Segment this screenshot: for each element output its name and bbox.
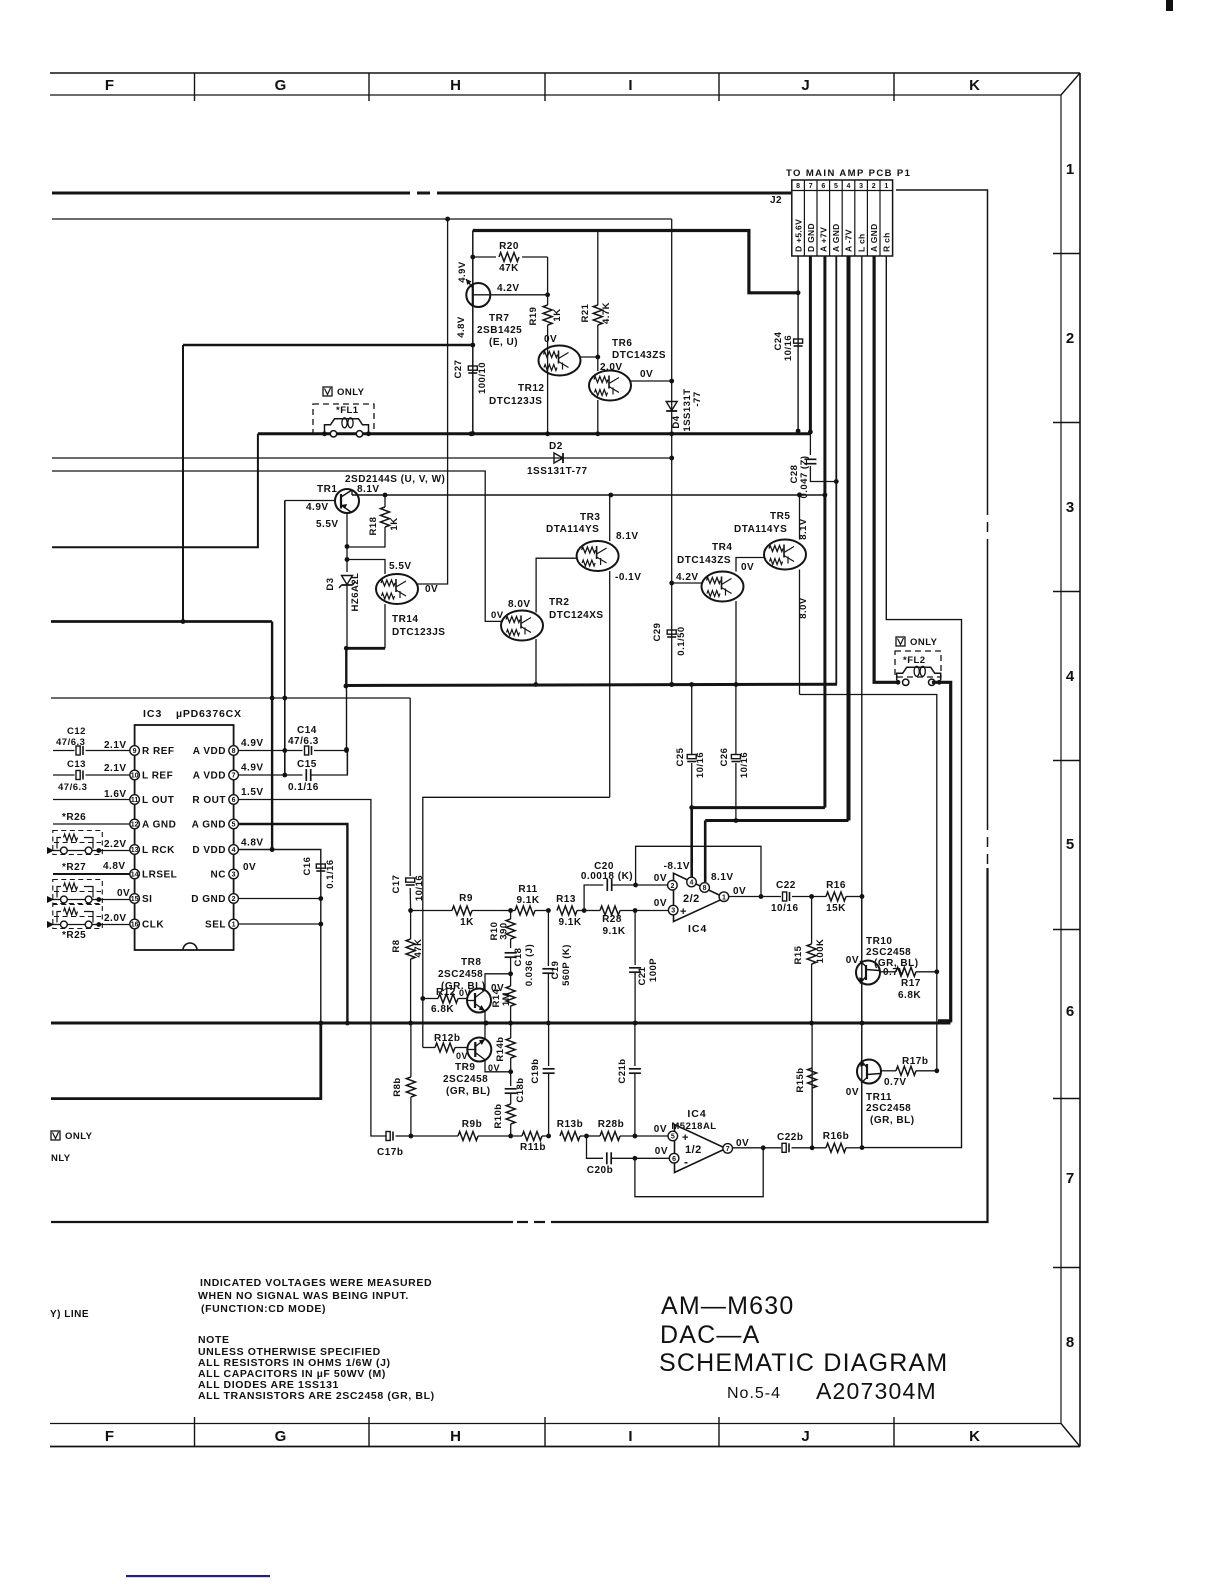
svg-text:A +7V: A +7V	[819, 227, 829, 252]
capacitor C20 branch	[584, 885, 603, 911]
svg-text:0V: 0V	[640, 369, 653, 380]
svg-text:C27: C27	[453, 360, 464, 379]
svg-text:TR11: TR11	[866, 1092, 892, 1103]
svg-text:IC3: IC3	[143, 708, 162, 720]
svg-text:100P: 100P	[648, 958, 659, 982]
svg-text:3: 3	[232, 872, 236, 879]
svg-text:2SC2458: 2SC2458	[438, 969, 483, 980]
svg-text:C17b: C17b	[377, 1147, 403, 1158]
svg-text:C22: C22	[776, 880, 796, 891]
svg-text:-8.1V: -8.1V	[664, 861, 690, 872]
svg-text:7: 7	[1066, 1170, 1074, 1187]
svg-text:6.8K: 6.8K	[431, 1004, 454, 1015]
wire A+7V rail to IC4 pin4	[692, 806, 825, 809]
svg-text:-77: -77	[692, 391, 703, 406]
wire ground bus	[51, 1022, 951, 1025]
svg-text:A GND: A GND	[192, 820, 226, 831]
svg-text:4.2V: 4.2V	[497, 283, 520, 294]
svg-text:C12: C12	[67, 726, 86, 737]
svg-text:J: J	[801, 77, 810, 94]
svg-text:R8b: R8b	[392, 1077, 403, 1096]
diode D3 zener	[342, 576, 353, 585]
wire J2 pin1 R ch	[862, 256, 962, 1148]
svg-text:C19: C19	[550, 961, 561, 980]
wire drive column x183	[182, 345, 184, 622]
transistor TR5	[764, 540, 806, 570]
svg-text:G: G	[275, 77, 288, 94]
svg-text:C16: C16	[302, 857, 313, 876]
svg-text:0V: 0V	[544, 334, 557, 345]
capacitor C18b	[510, 1072, 512, 1086]
svg-text:2SC2458: 2SC2458	[866, 947, 911, 958]
border frame top band	[50, 72, 1080, 74]
IC4a pin4	[687, 877, 697, 887]
svg-text:4.8V: 4.8V	[103, 861, 126, 872]
svg-text:*R27: *R27	[62, 862, 86, 873]
svg-text:INDICATED VOLTAGES WERE MEASUR: INDICATED VOLTAGES WERE MEASURED	[200, 1277, 432, 1289]
transistor TR11	[861, 1023, 863, 1060]
registration mark top right	[1166, 0, 1173, 11]
svg-text:Y) LINE: Y) LINE	[50, 1309, 89, 1320]
svg-text:0V: 0V	[733, 886, 746, 897]
svg-text:1.6V: 1.6V	[104, 789, 127, 800]
svg-text:R21: R21	[580, 303, 591, 322]
resistor R8b	[410, 1097, 412, 1136]
svg-text:No.5-4: No.5-4	[727, 1385, 781, 1402]
svg-text:H: H	[450, 77, 462, 94]
filter FL1	[313, 404, 374, 434]
wire x672 column	[671, 219, 673, 684]
svg-text:R28: R28	[602, 914, 622, 925]
wire C17 feed	[409, 698, 411, 876]
transistor TR8	[467, 989, 491, 1013]
capacitor C18	[505, 952, 517, 954]
svg-text:10/16: 10/16	[739, 752, 750, 778]
capacitor C12	[53, 750, 75, 752]
svg-text:D4: D4	[671, 415, 682, 428]
transistor TR9	[467, 1038, 491, 1062]
svg-text:C19b: C19b	[530, 1058, 541, 1083]
svg-text:8.1V: 8.1V	[711, 872, 734, 883]
svg-text:-: -	[684, 1155, 689, 1169]
resistor R12	[423, 998, 438, 1000]
IC4b pin6	[669, 1153, 679, 1163]
wire pin4 D VDD to C16	[51, 850, 321, 1099]
IC3 pin 12 A GND	[130, 819, 140, 829]
transistor TR7	[466, 283, 490, 307]
wire bus y433 filtered +5.6V	[258, 432, 811, 435]
wire J2 pin6 A+7V	[823, 256, 826, 808]
capacitor C19b	[548, 1023, 550, 1066]
svg-text:I: I	[628, 77, 633, 94]
svg-text:I: I	[628, 1428, 633, 1445]
svg-text:8.1V: 8.1V	[616, 531, 639, 542]
resistor R10	[510, 911, 512, 920]
svg-text:DTC123JS: DTC123JS	[392, 627, 445, 638]
resistor R9b	[458, 1132, 478, 1141]
svg-text:-0.1V: -0.1V	[615, 572, 641, 583]
svg-text:1: 1	[722, 894, 726, 901]
IC3 pin 7 A VDD	[229, 770, 239, 780]
svg-text:*FL2: *FL2	[903, 655, 926, 666]
svg-text:R13: R13	[556, 894, 576, 905]
svg-text:0.036 (J): 0.036 (J)	[524, 944, 535, 987]
svg-text:8.0V: 8.0V	[508, 599, 531, 610]
svg-text:R16: R16	[826, 880, 846, 891]
resistor R19	[547, 295, 549, 305]
IC3 pin 6 R OUT	[229, 795, 239, 805]
svg-text:9.1K: 9.1K	[602, 926, 625, 937]
IC3 pin 13 L RCK	[130, 845, 140, 855]
svg-text:TR3: TR3	[580, 512, 600, 523]
checkbox FL1 ONLY	[323, 387, 332, 396]
svg-text:4.9V: 4.9V	[457, 261, 468, 283]
svg-text:2SB1425: 2SB1425	[477, 325, 522, 336]
resistor R9	[452, 906, 472, 915]
wire vertical x284 from TR1 base	[284, 501, 286, 776]
resistor R18	[384, 495, 386, 507]
svg-text:0V: 0V	[491, 983, 504, 994]
svg-text:0V: 0V	[654, 898, 667, 909]
svg-text:2: 2	[670, 883, 674, 890]
svg-text:8: 8	[703, 885, 707, 892]
svg-text:F: F	[105, 77, 115, 94]
wire FL2 to ground corner	[932, 682, 951, 1021]
IC3 pin 11 L OUT	[130, 795, 140, 805]
wire TR1 emitter to D3	[346, 547, 348, 573]
svg-text:0V: 0V	[456, 1051, 468, 1061]
svg-text:DTC143ZS: DTC143ZS	[677, 555, 731, 566]
transistor TR4	[702, 572, 744, 602]
svg-text:15: 15	[131, 896, 139, 903]
IC3 pin 5 A GND	[229, 819, 239, 829]
IC3 pin 4 D VDD	[229, 845, 239, 855]
wire IC4b output	[733, 1147, 782, 1149]
svg-text:7: 7	[232, 773, 236, 780]
svg-text:6.8K: 6.8K	[898, 990, 921, 1001]
svg-text:0V: 0V	[654, 1124, 667, 1135]
wire pin7 A VDD to C15	[238, 774, 302, 776]
wire bus 8V	[346, 684, 837, 685]
wire thick TR14 emitter join	[346, 647, 385, 650]
wire pin5 A GND down	[238, 824, 347, 1023]
svg-text:1K: 1K	[460, 917, 474, 928]
svg-text:R10b: R10b	[493, 1103, 504, 1128]
svg-text:+: +	[682, 1132, 689, 1144]
svg-text:5: 5	[671, 1134, 675, 1141]
svg-text:1: 1	[884, 183, 888, 190]
svg-text:47/6.3: 47/6.3	[56, 737, 85, 748]
resistor R15	[811, 897, 813, 945]
wire node line y219	[52, 218, 672, 220]
wire TR14 collector to x447	[417, 219, 448, 584]
svg-text:2SC2458: 2SC2458	[443, 1074, 488, 1085]
svg-text:TR14: TR14	[392, 614, 418, 625]
svg-text:1M: 1M	[501, 992, 512, 1006]
svg-text:D GND: D GND	[191, 894, 226, 905]
svg-text:A GND: A GND	[869, 223, 879, 252]
svg-text:5.5V: 5.5V	[389, 561, 412, 572]
svg-text:3: 3	[1066, 499, 1074, 516]
svg-text:C18: C18	[513, 948, 524, 967]
resistor R16b	[826, 1143, 846, 1152]
resistor R12b	[423, 1047, 435, 1049]
resistor R20	[473, 256, 496, 258]
IC4b pin5	[668, 1131, 678, 1141]
svg-text:10/16: 10/16	[414, 875, 425, 901]
svg-text:6: 6	[232, 797, 236, 804]
svg-text:DTC143ZS: DTC143ZS	[612, 350, 666, 361]
wire FL1 branch corner	[52, 434, 258, 547]
transistor TR6	[589, 371, 631, 401]
svg-text:2/2: 2/2	[683, 893, 700, 905]
wire thick drive line y345	[183, 344, 473, 347]
wire TR14 base branch	[347, 560, 385, 575]
svg-text:TR5: TR5	[770, 511, 790, 522]
svg-text:1: 1	[1066, 161, 1074, 178]
svg-text:DTC124XS: DTC124XS	[549, 610, 604, 621]
svg-text:R19: R19	[528, 307, 539, 326]
svg-text:D VDD: D VDD	[192, 845, 226, 856]
wire IC4a feedback loop	[636, 846, 761, 896]
svg-text:R15: R15	[793, 945, 804, 964]
wire thick line y621 to D VDD	[51, 620, 272, 623]
svg-text:2: 2	[872, 183, 876, 190]
svg-text:C20b: C20b	[587, 1165, 613, 1176]
svg-text:NC: NC	[211, 870, 226, 881]
capacitor C21	[634, 911, 636, 966]
svg-text:0V: 0V	[654, 873, 667, 884]
capacitor C20b branch	[587, 1136, 604, 1158]
svg-text:0V: 0V	[117, 888, 130, 899]
svg-text:0V: 0V	[459, 988, 471, 998]
wire pin8 A VDD to C14	[238, 750, 302, 752]
svg-text:14: 14	[131, 872, 139, 879]
svg-text:10/16: 10/16	[783, 335, 794, 361]
svg-text:R14b: R14b	[495, 1036, 506, 1061]
svg-text:R18: R18	[368, 517, 379, 536]
capacitor C22	[783, 892, 787, 901]
svg-text:100/10: 100/10	[477, 362, 488, 394]
capacitor C26	[731, 755, 740, 759]
wire LRSEL pin14 line	[53, 873, 130, 875]
resistor R25 jumper	[53, 905, 103, 929]
svg-text:2: 2	[232, 896, 236, 903]
svg-text:R28b: R28b	[598, 1119, 624, 1130]
svg-text:ONLY: ONLY	[65, 1131, 93, 1142]
svg-text:(GR, BL): (GR, BL)	[870, 1115, 915, 1126]
svg-text:M5218AL: M5218AL	[671, 1121, 716, 1132]
wire IC4a output	[729, 896, 781, 898]
IC3 pin 3 NC	[229, 869, 239, 879]
svg-text:TR1: TR1	[317, 484, 337, 495]
svg-text:6: 6	[821, 183, 825, 190]
svg-text:4: 4	[847, 183, 851, 190]
svg-text:10/16: 10/16	[695, 752, 706, 778]
svg-text:9.1K: 9.1K	[516, 895, 539, 906]
svg-text:TO MAIN AMP PCB P1: TO MAIN AMP PCB P1	[786, 168, 911, 179]
svg-text:4.7K: 4.7K	[601, 302, 612, 324]
svg-text:8: 8	[1066, 1334, 1074, 1351]
svg-text:J2: J2	[770, 195, 782, 206]
svg-text:0V: 0V	[741, 562, 754, 573]
svg-text:3: 3	[859, 183, 863, 190]
svg-text:R OUT: R OUT	[192, 795, 226, 806]
capacitor C13	[53, 774, 75, 776]
resistor R14	[510, 974, 512, 986]
svg-text:16: 16	[131, 922, 139, 929]
svg-text:D +5.6V: D +5.6V	[793, 219, 803, 252]
svg-text:2.0V: 2.0V	[600, 362, 623, 373]
wire J2 pin8 D+5.6V	[797, 256, 799, 431]
svg-text:A VDD: A VDD	[193, 771, 226, 782]
svg-text:8: 8	[796, 183, 800, 190]
svg-text:8: 8	[232, 748, 236, 755]
svg-text:µPD6376CX: µPD6376CX	[176, 708, 242, 720]
svg-text:TR7: TR7	[489, 313, 509, 324]
svg-text:G: G	[275, 1428, 288, 1445]
resistor R16	[826, 892, 846, 901]
svg-text:5: 5	[834, 183, 838, 190]
wire J2 pin7 D GND	[809, 256, 812, 432]
svg-text:0V: 0V	[655, 1146, 668, 1157]
svg-text:R11b: R11b	[520, 1142, 546, 1153]
IC3 pin 8 A VDD	[229, 746, 239, 756]
svg-text:C18b: C18b	[515, 1077, 526, 1102]
transistor TR12	[547, 346, 549, 434]
svg-text:47/6.3: 47/6.3	[58, 782, 87, 793]
svg-text:4.8V: 4.8V	[456, 316, 467, 338]
svg-text:R12b: R12b	[434, 1033, 460, 1044]
svg-text:0.047 (Z): 0.047 (Z)	[799, 455, 810, 498]
diode D2	[554, 453, 563, 463]
svg-text:C17: C17	[391, 875, 402, 894]
resistor R17	[880, 971, 896, 973]
svg-text:D GND: D GND	[806, 223, 816, 252]
capacitor C25	[687, 755, 696, 759]
transistor TR14	[376, 574, 418, 604]
svg-text:4.9V: 4.9V	[241, 763, 264, 774]
filter FL2	[895, 651, 941, 677]
svg-text:TR9: TR9	[455, 1062, 475, 1073]
wire TR5 base	[736, 558, 764, 572]
capacitor C17	[406, 878, 415, 882]
svg-text:8.1V: 8.1V	[798, 518, 809, 540]
svg-text:*FL1: *FL1	[336, 405, 359, 416]
svg-text:IC4: IC4	[688, 923, 707, 935]
transistor TR1	[335, 489, 359, 513]
resistor R28b	[587, 1135, 601, 1137]
svg-text:ALL TRANSISTORS ARE 2SC2458 (G: ALL TRANSISTORS ARE 2SC2458 (GR, BL)	[198, 1390, 435, 1402]
svg-text:1: 1	[232, 922, 236, 929]
svg-text:0V: 0V	[243, 862, 256, 873]
svg-text:C25: C25	[675, 747, 686, 766]
svg-text:L OUT: L OUT	[142, 795, 174, 806]
svg-text:0.1/16: 0.1/16	[288, 782, 319, 793]
svg-text:DAC—A: DAC—A	[660, 1321, 760, 1349]
svg-text:0V: 0V	[846, 955, 859, 966]
wire TR5 emitter to R17 column	[800, 695, 937, 1071]
op-amp IC4 2/2	[674, 873, 726, 921]
svg-text:8.1V: 8.1V	[357, 484, 380, 495]
resistor R17b	[881, 1070, 896, 1072]
svg-text:0V: 0V	[425, 584, 438, 595]
svg-text:NLY: NLY	[51, 1153, 71, 1164]
wire L OUT line	[53, 799, 130, 801]
svg-text:R13b: R13b	[557, 1119, 583, 1130]
transistor TR10	[861, 897, 863, 961]
resistor R13	[557, 906, 577, 915]
wire TR3 base to TR2	[536, 558, 576, 612]
IC3 pin 2 D GND	[229, 894, 239, 904]
svg-text:100K: 100K	[815, 939, 826, 964]
IC3 pin 9 R REF	[130, 746, 140, 756]
wire thick +5.6V feed to J2 pin8	[473, 231, 798, 293]
svg-text:K: K	[969, 77, 981, 94]
resistor R27 jumper	[53, 880, 103, 904]
capacitor C28	[804, 458, 816, 460]
svg-text:TR6: TR6	[612, 338, 632, 349]
op-amp IC4 1/2	[675, 1125, 727, 1173]
svg-text:2SC2458: 2SC2458	[866, 1103, 911, 1114]
wire A GND pin12 line	[53, 823, 130, 825]
svg-text:K: K	[969, 1428, 981, 1445]
svg-text:C15: C15	[297, 759, 317, 770]
svg-text:A VDD: A VDD	[193, 746, 226, 757]
svg-text:9.1K: 9.1K	[558, 917, 581, 928]
resistor R13b	[560, 1132, 580, 1141]
svg-text:R9b: R9b	[462, 1119, 482, 1130]
svg-text:1K: 1K	[389, 517, 400, 530]
svg-text:TR8: TR8	[461, 957, 481, 968]
wire mute drive to R12	[423, 797, 610, 1047]
svg-text:R12: R12	[436, 987, 456, 998]
svg-text:R11: R11	[518, 884, 537, 895]
svg-text:F: F	[105, 1428, 115, 1445]
transistor TR3	[577, 541, 619, 571]
svg-text:*R25: *R25	[62, 930, 86, 941]
wire channel2 input line	[411, 1135, 458, 1137]
IC4a pin2	[668, 880, 678, 890]
capacitor C27	[468, 366, 477, 370]
svg-text:R ch: R ch	[882, 232, 892, 252]
svg-text:6: 6	[1066, 1003, 1074, 1020]
svg-text:560P (K): 560P (K)	[561, 944, 572, 986]
svg-text:+: +	[680, 906, 687, 918]
resistor R11	[500, 910, 515, 912]
svg-text:2.1V: 2.1V	[104, 740, 127, 751]
svg-text:4: 4	[1066, 668, 1075, 685]
wire IC4b feedback loop	[635, 1148, 763, 1197]
svg-text:0.7V: 0.7V	[884, 1077, 907, 1088]
svg-text:(E, U): (E, U)	[489, 337, 518, 348]
svg-text:3: 3	[671, 908, 675, 915]
wire mute sense line y471	[52, 471, 503, 621]
svg-text:HZ6A2L: HZ6A2L	[350, 573, 361, 612]
svg-text:C13: C13	[67, 759, 86, 770]
svg-text:4.8V: 4.8V	[241, 838, 264, 849]
capacitor C19	[547, 911, 549, 967]
wire channel1 input line	[411, 910, 452, 912]
svg-text:0.0018 (K): 0.0018 (K)	[581, 871, 633, 882]
wire TR6 collector 0V	[631, 380, 672, 382]
svg-text:L ch: L ch	[856, 233, 866, 252]
svg-text:A GND: A GND	[142, 820, 176, 831]
svg-text:1K: 1K	[552, 308, 563, 321]
resistor R26 jumper	[53, 831, 103, 855]
wire A-7V rail to IC4 pin8	[705, 819, 848, 822]
wire J2 pin2 A GND	[874, 256, 898, 682]
